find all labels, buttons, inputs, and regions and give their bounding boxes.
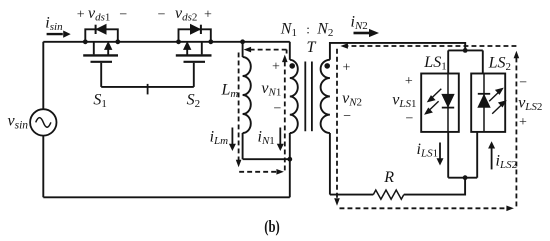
- current arrow i_LS2: [488, 141, 495, 169]
- dashed primary loop arrow left (top edge): [244, 47, 252, 53]
- svg-text:−: −: [119, 8, 127, 23]
- wire Lm to N1 bottom connector: [243, 158, 290, 160]
- current arrow i_N2: [354, 29, 380, 37]
- LED LS2 light arrow 1 head: [496, 89, 502, 94]
- svg-text:N1: N1: [280, 21, 297, 40]
- dashed secondary loop top edge: [347, 45, 516, 47]
- LED LS2 diode cathode bar: [478, 93, 490, 95]
- inductor Lm: [243, 57, 251, 133]
- dashed primary loop top-right hook: [286, 50, 288, 54]
- wire bottom right of R: [404, 178, 465, 195]
- current arrow i_LS1: [437, 143, 444, 166]
- S1 gate bar: [91, 61, 113, 63]
- S1 drain lead: [93, 42, 95, 55]
- LED LS2 light arrow 2 shaft: [492, 105, 501, 114]
- svg-text:S2: S2: [187, 92, 201, 111]
- S2 body diode triangle: [191, 25, 201, 34]
- dashed primary loop arrow down (left edge): [236, 160, 242, 168]
- wire Lm bottom lead: [242, 133, 244, 159]
- svg-text:vds2: vds2: [175, 5, 197, 24]
- svg-text:+: +: [77, 7, 85, 22]
- S1 source arrowhead: [105, 42, 112, 49]
- S2 body diode loop: [179, 29, 211, 42]
- wire bottom left of R: [330, 194, 373, 196]
- dashed primary loop top edge: [251, 49, 287, 51]
- S2 gate lead: [193, 63, 195, 87]
- junction S2 diode right: [208, 39, 213, 44]
- svg-text:−: −: [519, 76, 527, 91]
- junction Lm tap: [240, 39, 245, 44]
- wire primary return vertical: [289, 159, 291, 197]
- svg-text:Lm: Lm: [221, 81, 239, 100]
- wire LS2 bottom lead: [476, 132, 478, 178]
- dashed secondary loop arrow left (top edge): [340, 43, 348, 49]
- transformer T primary winding N1: [290, 60, 298, 133]
- LED LS1 light arrow 1 head: [428, 96, 434, 101]
- LED LS2 light arrow 2 head: [499, 101, 505, 106]
- transistor S2: [176, 29, 212, 87]
- svg-text:iLS1: iLS1: [417, 141, 439, 160]
- svg-text:vLS1: vLS1: [392, 92, 416, 111]
- current arrow i_Lm: [229, 128, 236, 152]
- wire Lm top lead: [242, 42, 244, 57]
- wire top rail: [43, 41, 289, 43]
- svg-text:vsin: vsin: [8, 113, 29, 132]
- junction S1 diode left: [83, 39, 88, 44]
- dashed secondary loop arrow up (right edge): [514, 51, 520, 59]
- S1 body diode cathode bar: [95, 25, 97, 34]
- LED LS2 light arrow 1 shaft: [489, 92, 498, 101]
- transformer polarity dot N2: [324, 63, 330, 69]
- junction LED bottom: [463, 175, 468, 180]
- current arrow i_sin: [47, 31, 71, 38]
- wire gate drive bus S1-S2: [101, 86, 194, 88]
- LED LS1 light arrow 2 shaft: [429, 101, 438, 110]
- svg-text:vds1: vds1: [88, 5, 110, 24]
- svg-text:vN2: vN2: [342, 90, 362, 109]
- wire LS1 bottom lead: [447, 132, 449, 178]
- dashed secondary loop left edge: [336, 49, 338, 199]
- source v_sin sine symbol: [36, 118, 51, 128]
- transistor S1: [83, 29, 118, 87]
- svg-text:vN1: vN1: [261, 80, 281, 99]
- transformer secondary winding N2: [321, 60, 330, 133]
- svg-text:−: −: [274, 102, 282, 117]
- S2 source arrow: [186, 47, 188, 55]
- wire LS1 top lead: [447, 50, 449, 73]
- LED string LS2 box: [471, 74, 505, 132]
- source v_sin circle: [30, 109, 56, 135]
- S2 drain lead: [201, 42, 203, 55]
- svg-text:iN1: iN1: [258, 129, 275, 148]
- svg-text:LS2: LS2: [488, 54, 511, 73]
- resistor R: [373, 190, 404, 199]
- svg-text:T: T: [307, 39, 317, 56]
- wire bottom rail: [43, 196, 289, 198]
- svg-text:LS1: LS1: [423, 54, 446, 73]
- svg-text:+: +: [519, 115, 527, 130]
- dashed secondary loop right edge: [515, 58, 517, 209]
- gate drive tick: [147, 84, 149, 95]
- LED string LS1 box: [421, 74, 459, 132]
- S1 body diode loop: [85, 29, 118, 42]
- wire left vertical lower: [42, 136, 44, 198]
- svg-text:(b): (b): [264, 217, 280, 236]
- wire LED bottom connector: [448, 177, 477, 179]
- junction S2 diode left: [176, 39, 181, 44]
- svg-text:+: +: [405, 74, 413, 89]
- wire LS2 top lead: [482, 50, 484, 73]
- LED LS1 diode axis: [447, 74, 449, 132]
- wire primary bottom lead: [289, 133, 291, 159]
- svg-text:S1: S1: [93, 92, 107, 111]
- svg-text:iLm: iLm: [210, 129, 229, 148]
- svg-text:+: +: [204, 7, 212, 22]
- svg-text:+: +: [272, 59, 280, 74]
- svg-text:+: +: [343, 61, 351, 76]
- wire secondary top lead: [330, 43, 465, 60]
- S2 gate bar: [184, 61, 206, 63]
- svg-text:−: −: [405, 111, 413, 126]
- S1 channel bar: [83, 54, 118, 56]
- svg-text:R: R: [383, 169, 394, 186]
- dashed primary loop right edge: [284, 62, 286, 172]
- transformer core line left: [304, 62, 306, 132]
- dashed primary loop arrow right (bottom edge): [276, 169, 284, 175]
- dashed primary loop left edge: [238, 53, 240, 161]
- svg-text:iN2: iN2: [351, 14, 368, 32]
- wire left vertical upper: [42, 42, 44, 109]
- dashed secondary loop arrow right (bottom edge): [506, 206, 514, 212]
- S2 body diode cathode bar: [200, 25, 202, 34]
- S2 channel bar: [176, 54, 212, 56]
- wire primary top drop: [289, 42, 291, 60]
- svg-text:N2: N2: [316, 21, 333, 40]
- svg-text:isin: isin: [45, 14, 63, 33]
- junction primary bottom: [287, 157, 292, 162]
- junction S1 diode right: [115, 39, 120, 44]
- S1 source arrow: [107, 47, 109, 55]
- svg-text::: :: [306, 22, 310, 37]
- wire secondary bottom lead: [329, 133, 331, 195]
- LED LS1 light arrow 2 head: [426, 109, 432, 114]
- svg-text:−: −: [343, 109, 351, 124]
- LED LS1 diode triangle: [442, 94, 454, 107]
- dashed primary loop arrow up (right edge): [282, 55, 288, 63]
- LED LS1 diode cathode bar: [442, 107, 454, 109]
- svg-text:vLS2: vLS2: [518, 95, 542, 114]
- junction LED top feed: [463, 48, 468, 53]
- dashed secondary loop arrow down (left edge): [334, 198, 340, 206]
- S1 body diode triangle: [96, 25, 106, 34]
- LED LS1 light arrow 1 shaft: [432, 89, 441, 98]
- S1 gate lead: [100, 63, 102, 87]
- transformer core line right: [311, 62, 313, 132]
- wire LED top connector: [448, 49, 483, 51]
- LED LS2 diode axis: [483, 74, 485, 132]
- dashed secondary loop bottom edge: [340, 207, 508, 209]
- svg-text:iLS2: iLS2: [496, 152, 518, 171]
- current arrow i_N1: [277, 128, 284, 152]
- svg-text:−: −: [158, 8, 166, 23]
- transformer polarity dot N1: [289, 63, 295, 69]
- S2 source arrowhead: [184, 42, 191, 49]
- LED LS2 diode triangle: [478, 94, 490, 107]
- dashed primary loop bottom edge: [239, 171, 277, 173]
